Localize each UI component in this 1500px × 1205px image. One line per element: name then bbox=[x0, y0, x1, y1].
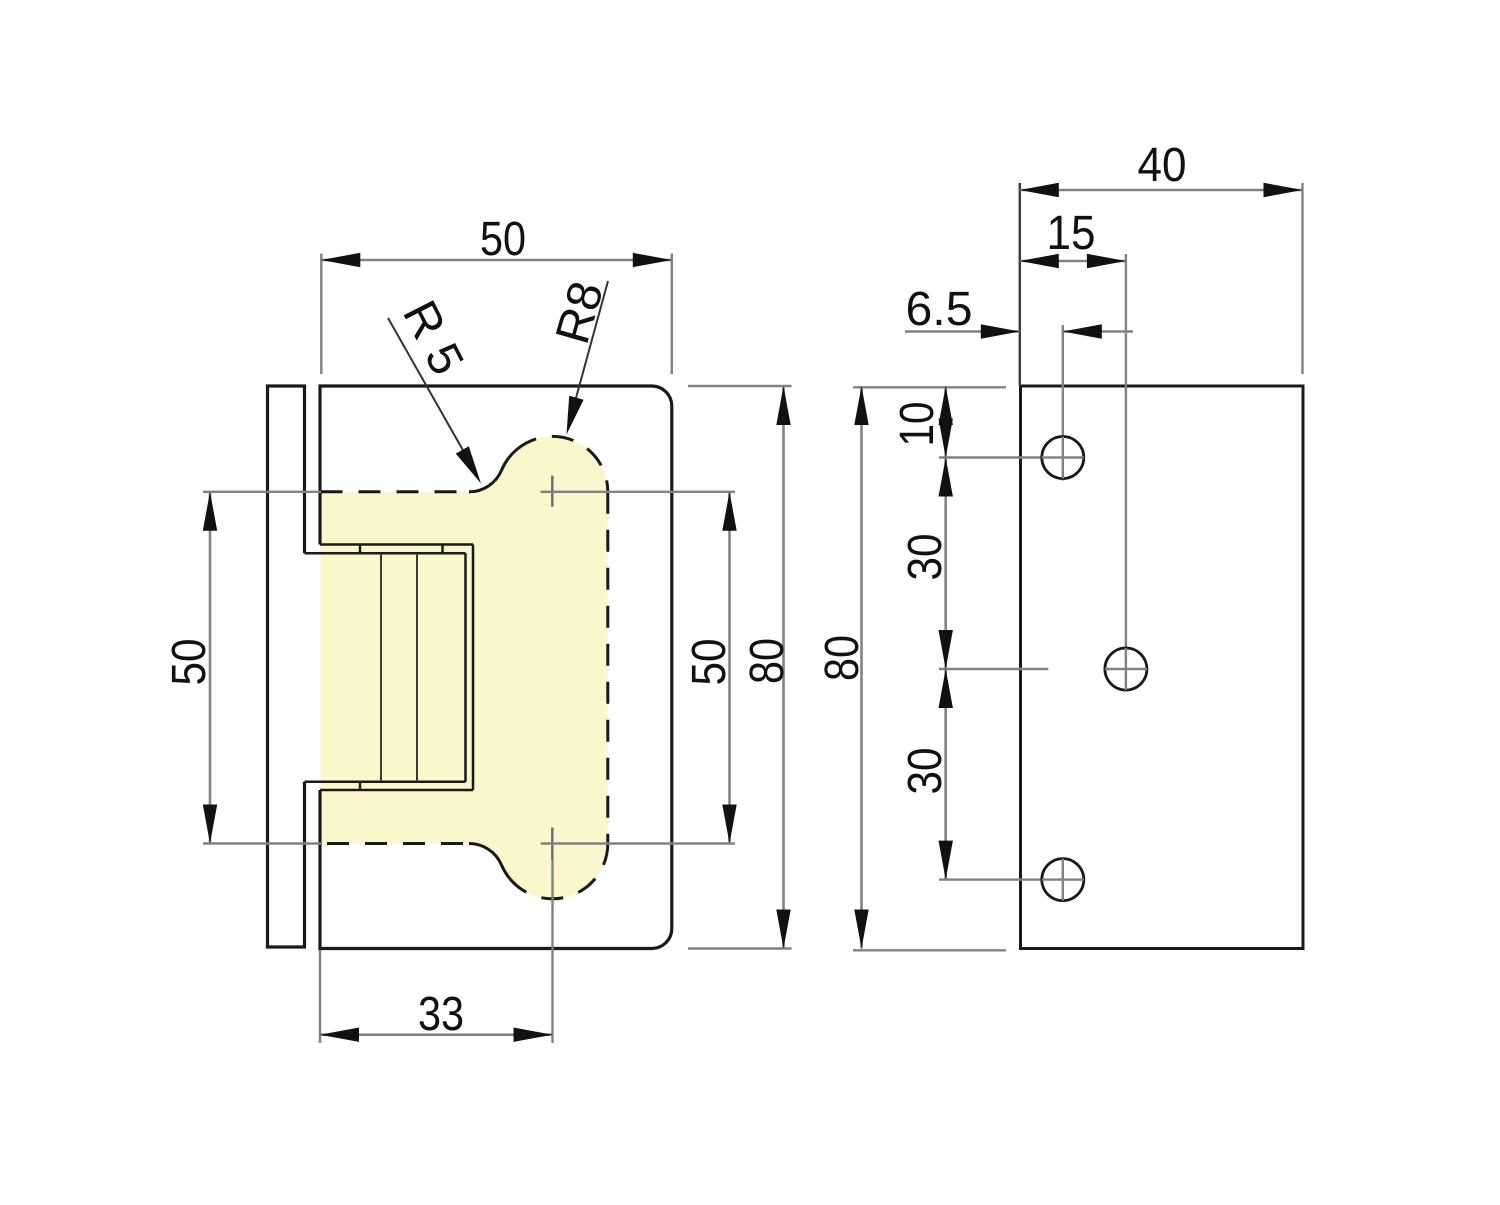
knuckle outer top line bbox=[320, 543, 473, 546]
knuckle inner right line bbox=[464, 553, 467, 782]
glass cutout template (yellow) fill bbox=[321, 436, 608, 899]
arrow top of 80 bbox=[776, 386, 790, 425]
arrow right of 33 bbox=[514, 1028, 553, 1042]
crosshair v bottom hole bbox=[1062, 858, 1064, 902]
dimension 33 line bbox=[320, 1033, 553, 1036]
leader arrow R8 bbox=[567, 396, 584, 435]
hole center cross bottom bbox=[551, 828, 553, 860]
arrow down 30a bbox=[939, 630, 953, 669]
pivot pin line left bbox=[380, 553, 382, 782]
cutout solid fillet R5 top bbox=[469, 449, 517, 491]
dimension 50 right line bbox=[728, 492, 731, 844]
extension line left50 top bbox=[203, 491, 321, 493]
dimension 10-30-30 line bbox=[944, 386, 947, 880]
knuckle inner bottom line bbox=[305, 781, 466, 784]
extension line 80 bottom bbox=[688, 947, 792, 949]
arrow top of 80 right view bbox=[854, 386, 868, 425]
extension line 80 top bbox=[688, 385, 792, 387]
side plate body bbox=[1021, 386, 1304, 949]
extension line 40 left bbox=[1019, 183, 1021, 386]
svg-text:33: 33 bbox=[418, 988, 464, 1041]
knuckle outer bottom line bbox=[320, 789, 473, 792]
dimension 80 line right view bbox=[860, 386, 863, 949]
cutout dashed bottom edge bbox=[321, 842, 464, 845]
knuckle tick right top bbox=[441, 545, 444, 554]
svg-text:50: 50 bbox=[480, 213, 526, 266]
extension line left50 bottom bbox=[203, 842, 321, 844]
crosshair h middle hole bbox=[939, 668, 1048, 670]
cutout dashed top edge bbox=[321, 490, 464, 493]
extension line 33 left bbox=[319, 950, 321, 1043]
extension line right50 top bbox=[541, 491, 736, 493]
svg-text:80: 80 bbox=[816, 635, 869, 681]
svg-text:15: 15 bbox=[1047, 207, 1096, 260]
knuckle step tick bottom bbox=[359, 782, 362, 790]
hole middle bbox=[1105, 648, 1147, 690]
arrow top of left 50 bbox=[203, 492, 217, 531]
arrow bottom of 80 right view bbox=[854, 910, 868, 949]
arrow up 10 bbox=[939, 386, 953, 425]
extension line 33 right (from bottom hole center) bbox=[551, 860, 553, 1044]
hole top bbox=[1042, 437, 1084, 479]
arrow down 30b bbox=[939, 841, 953, 880]
crosshair v top hole (from 6.5 dim) bbox=[1062, 325, 1064, 481]
svg-text:80: 80 bbox=[741, 638, 794, 684]
dimension 50 top line bbox=[321, 259, 672, 262]
leader line R5 bbox=[388, 318, 464, 452]
arrow left of 33 bbox=[320, 1028, 359, 1042]
svg-text:30: 30 bbox=[899, 748, 952, 795]
hole bottom bbox=[1042, 859, 1084, 901]
extension line 40 right bbox=[1301, 183, 1303, 374]
dimension 80 line left view bbox=[782, 386, 785, 949]
arrow bottom of left 50 bbox=[203, 805, 217, 844]
cutout dashed arc R8 bottom bbox=[510, 844, 608, 899]
leader arrow R5 bbox=[456, 446, 481, 483]
cutout dashed arc R8 top bbox=[517, 436, 608, 491]
wall plate outline bbox=[268, 386, 305, 947]
svg-text:30: 30 bbox=[899, 534, 952, 581]
knuckle outer right line bbox=[472, 545, 475, 791]
dimension 50 left line bbox=[209, 492, 212, 844]
svg-text:50: 50 bbox=[163, 639, 216, 686]
body plate fill bbox=[320, 386, 672, 949]
arrow up 30b bbox=[939, 669, 953, 708]
crosshair h bottom hole bbox=[939, 878, 1085, 880]
extension line top50 left bbox=[320, 254, 322, 375]
hole center cross top bbox=[551, 476, 553, 507]
knuckle inner top line bbox=[305, 552, 466, 555]
dimension 15 line bbox=[1020, 260, 1126, 263]
arrow top of right 50 bbox=[722, 492, 736, 531]
arrow up 30a bbox=[939, 458, 953, 497]
svg-text:6.5: 6.5 bbox=[906, 283, 973, 336]
crosshair v middle hole (from 15 dim) bbox=[1125, 254, 1127, 690]
extension line 80 right-view top bbox=[853, 386, 1006, 388]
arrow left of 15 bbox=[1020, 254, 1059, 268]
svg-text:10: 10 bbox=[891, 402, 944, 447]
svg-text:40: 40 bbox=[1138, 139, 1187, 192]
arrow left of top 50 bbox=[321, 253, 360, 267]
dimension 6.5 right segment bbox=[1063, 330, 1133, 333]
extension line right50 bottom bbox=[541, 842, 736, 844]
svg-text:50: 50 bbox=[683, 639, 736, 686]
extension line 80 right-view bottom bbox=[853, 949, 1006, 951]
arrow left of 40 bbox=[1020, 183, 1059, 197]
arrow 6.5 pointing right bbox=[981, 324, 1020, 338]
arrow bottom of right 50 bbox=[722, 805, 736, 844]
knuckle step tick top bbox=[359, 545, 362, 554]
dimension 40 line bbox=[1020, 189, 1303, 192]
arrow down 10 bbox=[939, 419, 953, 458]
leader line R8 bbox=[576, 281, 608, 398]
arrow right of 40 bbox=[1264, 183, 1303, 197]
body plate outline bbox=[320, 386, 672, 949]
pivot pin line right bbox=[416, 553, 418, 782]
arrow right of top 50 bbox=[633, 253, 672, 267]
extension line top50 right bbox=[671, 254, 673, 375]
arrow right of 15 bbox=[1087, 254, 1126, 268]
arrow bottom of 80 bbox=[776, 910, 790, 949]
cutout dashed right edge bbox=[606, 492, 609, 844]
dimension 6.5 left segment bbox=[905, 330, 1020, 333]
arrow 6.5 pointing left bbox=[1063, 324, 1102, 338]
cutout solid fillet R5 bottom bbox=[469, 843, 510, 879]
crosshair ticks inside holes bbox=[1042, 437, 1084, 479]
crosshair h top hole bbox=[939, 456, 1085, 458]
